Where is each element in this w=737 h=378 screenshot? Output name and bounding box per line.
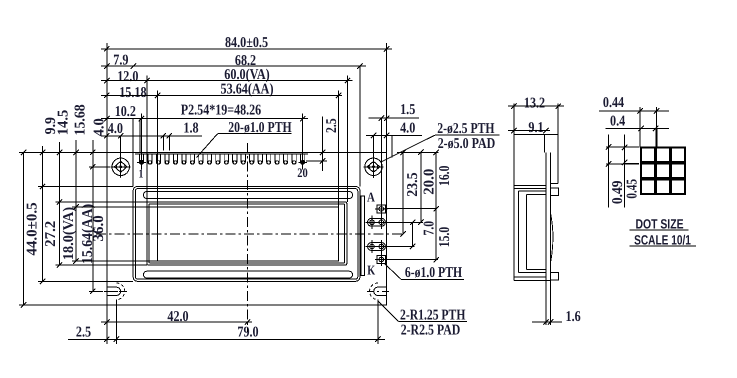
svg-text:42.0: 42.0 — [167, 309, 188, 325]
svg-text:18.0(VA): 18.0(VA) — [61, 207, 77, 260]
svg-text:12.0: 12.0 — [117, 69, 138, 85]
svg-text:44.0±0.5: 44.0±0.5 — [24, 202, 40, 255]
svg-text:10.2: 10.2 — [115, 104, 136, 120]
svg-text:4.0: 4.0 — [108, 121, 123, 137]
svg-text:9.1: 9.1 — [528, 120, 543, 136]
svg-text:0.45: 0.45 — [624, 179, 640, 199]
mounting hole right — [365, 158, 382, 175]
svg-text:2-ø5.0 PAD: 2-ø5.0 PAD — [438, 136, 496, 152]
dot matrix 3x3 squares — [641, 148, 655, 163]
dot pitch grid thin lines — [608, 135, 610, 208]
svg-text:2.5: 2.5 — [324, 118, 340, 133]
side view outline — [513, 135, 515, 281]
svg-text:16.0: 16.0 — [437, 166, 453, 186]
dot dim extension lines — [639, 107, 641, 148]
svg-text:1.5: 1.5 — [400, 102, 415, 118]
PCB outline — [107, 152, 387, 305]
20 connector pins — [139, 154, 143, 164]
extension lines top dims — [106, 43, 108, 152]
VA window — [147, 202, 347, 265]
bezel inner line — [135, 189, 357, 280]
svg-text:K: K — [367, 263, 375, 278]
svg-text:A: A — [367, 189, 375, 204]
svg-text:6-ø1.0 PTH: 6-ø1.0 PTH — [405, 265, 463, 281]
svg-text:79.0: 79.0 — [237, 324, 258, 340]
svg-text:27.2: 27.2 — [43, 221, 59, 247]
svg-text:DOT SIZE: DOT SIZE — [635, 216, 683, 231]
svg-text:20.0: 20.0 — [421, 169, 437, 195]
backlight pin 2 slot pad — [368, 218, 386, 226]
svg-text:13.2: 13.2 — [524, 96, 545, 112]
VA window inner — [149, 204, 345, 263]
bezel bottom slot — [144, 271, 353, 278]
svg-text:2-R2.5 PAD: 2-R2.5 PAD — [401, 322, 461, 338]
svg-text:4.0: 4.0 — [400, 121, 415, 137]
extension lines left dims — [19, 151, 107, 153]
svg-text:15.68: 15.68 — [73, 104, 89, 135]
backlight pin A pad — [377, 205, 385, 213]
svg-text:7.0: 7.0 — [421, 221, 437, 236]
backlight pin K pad — [377, 255, 385, 263]
horizontal centerline — [96, 233, 405, 235]
AA rect — [158, 207, 339, 261]
side tab bottom — [551, 273, 559, 281]
pin row top bar — [135, 153, 308, 155]
ear right slot — [374, 287, 387, 295]
bezel top slot — [144, 192, 353, 199]
svg-text:1.8: 1.8 — [183, 120, 198, 136]
vertical centerline — [247, 143, 249, 332]
svg-text:2.5: 2.5 — [76, 324, 91, 340]
centerline left ear — [89, 290, 128, 292]
svg-text:SCALE 10/1: SCALE 10/1 — [634, 233, 691, 248]
svg-text:1: 1 — [139, 166, 144, 180]
svg-text:23.5: 23.5 — [405, 172, 421, 196]
svg-text:4.0: 4.0 — [92, 118, 108, 136]
side epoxy bump — [551, 214, 553, 263]
svg-text:1.6: 1.6 — [566, 309, 582, 325]
svg-text:0.49: 0.49 — [610, 181, 626, 205]
extension stubs right dims — [397, 151, 439, 153]
svg-text:0.4: 0.4 — [610, 114, 626, 130]
mounting hole left — [112, 158, 129, 175]
svg-text:2-ø2.5 PTH: 2-ø2.5 PTH — [437, 121, 495, 137]
bezel outer — [133, 187, 360, 282]
svg-text:20: 20 — [297, 165, 308, 180]
side tab top — [551, 188, 559, 196]
svg-text:14.5: 14.5 — [56, 110, 72, 135]
svg-text:15.0: 15.0 — [437, 227, 453, 247]
side PCB strip — [545, 153, 547, 304]
bezel right tab — [361, 196, 364, 276]
ear left slot — [107, 287, 121, 295]
backlight pin 3 slot pad — [368, 243, 386, 251]
extension lines bottom dims — [106, 305, 108, 344]
svg-text:0.44: 0.44 — [603, 95, 625, 111]
svg-text:P2.54*19=48.26: P2.54*19=48.26 — [181, 103, 262, 119]
side bezel section — [514, 187, 546, 189]
svg-text:15.18: 15.18 — [119, 85, 146, 101]
